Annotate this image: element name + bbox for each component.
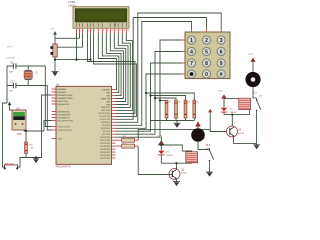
sounder LS1 bbox=[245, 72, 260, 87]
svg-text:PIC16F877A: PIC16F877A bbox=[56, 166, 71, 169]
wire LCD D3 to MCU bbox=[110, 34, 123, 99]
LDR U2 dark bar bbox=[13, 116, 25, 120]
svg-text:13: 13 bbox=[123, 30, 125, 32]
keypad button 7 bbox=[187, 59, 195, 67]
svg-text:OSC1/CLKIN: OSC1/CLKIN bbox=[58, 126, 71, 128]
svg-text:RE0/AN5/RD: RE0/AN5/RD bbox=[58, 110, 71, 113]
wire keypad row A to MCU bbox=[116, 40, 183, 137]
svg-text:RD5/PSP5: RD5/PSP5 bbox=[100, 152, 111, 154]
svg-text:RC4/SDI: RC4/SDI bbox=[102, 125, 111, 127]
svg-text:R2: R2 bbox=[169, 102, 171, 104]
svg-text:RE1/AN6/WR: RE1/AN6/WR bbox=[58, 113, 71, 116]
svg-text:RD0/PSP0: RD0/PSP0 bbox=[100, 137, 111, 139]
keypad button 2 bbox=[202, 36, 210, 44]
wire keypad row D to MCU bbox=[116, 74, 183, 128]
wire pulldown rail D bbox=[146, 93, 194, 100]
power +12V terminal above motor bbox=[195, 121, 201, 126]
svg-text:RB7/PGD: RB7/PGD bbox=[101, 110, 111, 112]
LCD pin name strip bbox=[76, 23, 127, 26]
svg-text:1: 1 bbox=[190, 38, 193, 44]
resistor R2 bbox=[165, 100, 168, 118]
LCD pin numbers bbox=[77, 30, 129, 32]
svg-text:1N4007: 1N4007 bbox=[230, 112, 237, 114]
wire OSC1 to MCU bbox=[45, 66, 51, 127]
svg-text:RA0/AN0: RA0/AN0 bbox=[58, 88, 68, 91]
wire Q2 base bbox=[210, 112, 226, 131]
power terminal at Q2 base bbox=[208, 109, 212, 113]
svg-text:6: 6 bbox=[220, 49, 223, 55]
svg-text:3: 3 bbox=[83, 30, 84, 32]
svg-text:8: 8 bbox=[103, 30, 104, 32]
diode D1 bbox=[221, 99, 227, 115]
svg-text:RB0/INT: RB0/INT bbox=[102, 89, 111, 91]
power +12V terminal at D2 bbox=[159, 137, 164, 145]
wire LCD E to MCU bbox=[94, 34, 137, 117]
wire LCD D6 to MCU bbox=[116, 34, 131, 108]
svg-text:6: 6 bbox=[94, 30, 95, 32]
keypad button 4 bbox=[187, 47, 195, 55]
svg-text:RA2/AN2/VREF-: RA2/AN2/VREF- bbox=[58, 94, 74, 97]
resistor R4 bbox=[184, 100, 187, 118]
svg-text:+12V: +12V bbox=[218, 90, 224, 92]
ground below RV1 bbox=[52, 72, 59, 76]
keypad row stubs bbox=[182, 40, 185, 74]
resistor R1 bbox=[25, 142, 28, 154]
wire crystal pins bbox=[27, 66, 29, 86]
motor M1 bbox=[191, 128, 205, 142]
svg-text:RA5/AN4/SS: RA5/AN4/SS bbox=[58, 103, 71, 106]
keypad button 0 bbox=[202, 70, 210, 78]
svg-text:U1: U1 bbox=[56, 82, 60, 86]
node Q2 collector rail bbox=[231, 114, 233, 116]
svg-text:RC0/T1OSO: RC0/T1OSO bbox=[99, 113, 111, 115]
svg-text:8: 8 bbox=[205, 61, 208, 67]
relay RL2 coil bbox=[186, 152, 198, 163]
wire MCU RA2 long rail bbox=[36, 95, 52, 158]
svg-text:7: 7 bbox=[190, 61, 193, 67]
node rail C bbox=[149, 94, 151, 96]
svg-text:RB3/PGM: RB3/PGM bbox=[101, 98, 111, 100]
LCD screen bbox=[75, 9, 127, 22]
svg-text:R3: R3 bbox=[178, 102, 180, 104]
power +5V terminal above RV1 bbox=[50, 29, 57, 44]
wire R6 to rail loop bbox=[138, 129, 210, 140]
relay RL2 switch bbox=[210, 148, 214, 163]
node D2 top bbox=[160, 144, 162, 146]
ground Q1 emitter bbox=[173, 182, 180, 186]
svg-text:+12V: +12V bbox=[157, 135, 163, 137]
svg-text:1: 1 bbox=[77, 30, 78, 32]
MCU left pin stubs bbox=[52, 89, 57, 139]
ground at R1 bbox=[33, 158, 39, 163]
svg-text:10k: 10k bbox=[30, 147, 33, 149]
wire crystal top rail bbox=[7, 65, 45, 67]
LCD LCD1 labels bbox=[68, 0, 77, 7]
relay RL1 switch bbox=[257, 98, 261, 112]
keypad button star bbox=[187, 70, 195, 78]
wire RV1 wiper to LCD VEE bbox=[57, 34, 82, 48]
svg-text:+12V: +12V bbox=[248, 54, 254, 56]
wire keypad col 2 to MCU bbox=[116, 18, 207, 120]
svg-text:4: 4 bbox=[88, 30, 89, 32]
resistor R6 bbox=[116, 138, 139, 142]
wire keypad row C to MCU bbox=[116, 63, 183, 131]
wire button right to R1 rail bbox=[17, 158, 26, 168]
potentiometer RV1 buttons bbox=[50, 46, 53, 49]
svg-text:1N4007: 1N4007 bbox=[166, 155, 173, 157]
wire Q2 collector bbox=[231, 115, 233, 126]
svg-text:RD6/PSP6: RD6/PSP6 bbox=[100, 155, 111, 157]
svg-text:2: 2 bbox=[80, 30, 81, 32]
LCD screen sheen bbox=[78, 11, 124, 19]
svg-text:RC7/RX: RC7/RX bbox=[103, 134, 111, 136]
ground RL1 Q2 bbox=[253, 143, 260, 148]
node Q1 collector rail bbox=[175, 162, 177, 164]
capacitor C1 bbox=[13, 63, 16, 68]
node RV1 bottom bbox=[54, 59, 56, 61]
wire RL2 top rail bbox=[161, 145, 191, 152]
wire speaker top bbox=[252, 62, 254, 72]
wire LDR node to MCU bbox=[24, 121, 52, 132]
svg-text:#: # bbox=[220, 72, 223, 78]
svg-text:11: 11 bbox=[115, 30, 117, 32]
svg-text:RC3/SCK: RC3/SCK bbox=[101, 122, 111, 124]
svg-text:BC547: BC547 bbox=[181, 173, 188, 175]
svg-text:14: 14 bbox=[127, 30, 129, 32]
keypad button 9 bbox=[217, 59, 225, 67]
resistor R7 bbox=[116, 144, 139, 148]
keypad body bbox=[185, 32, 230, 79]
power +12V terminal above speaker bbox=[250, 57, 255, 62]
wire keypad row B to MCU bbox=[116, 52, 183, 135]
button reset bbox=[4, 165, 18, 169]
transistor Q1 bbox=[169, 169, 180, 180]
svg-text:+5V: +5V bbox=[50, 29, 54, 31]
svg-text:RA3/AN3/VREF+: RA3/AN3/VREF+ bbox=[58, 97, 75, 100]
svg-text:9: 9 bbox=[220, 61, 223, 67]
LDR U2 terminals bbox=[15, 123, 17, 125]
LDR U2 body bbox=[12, 110, 26, 130]
crystal X1 bbox=[24, 70, 32, 79]
wire pulldown rail B bbox=[155, 98, 176, 100]
wire RV1 top to LCD VDD bbox=[55, 34, 80, 39]
svg-text:RD7/PSP7: RD7/PSP7 bbox=[100, 158, 111, 160]
wire LDR node to R1 bbox=[25, 131, 27, 142]
svg-text:RL1: RL1 bbox=[253, 93, 258, 95]
keypad button 5 bbox=[202, 47, 210, 55]
node RW rail bbox=[89, 59, 91, 61]
wire keypad col 3 to MCU bbox=[116, 13, 222, 122]
transistor Q2 bbox=[227, 126, 238, 137]
wire speaker bottom bbox=[253, 87, 257, 98]
node ground rail bbox=[35, 156, 37, 158]
svg-text:R5: R5 bbox=[196, 102, 198, 104]
motor M1 wires bbox=[198, 127, 210, 150]
wire pulldown rail A bbox=[160, 99, 167, 101]
wire caps left rail bbox=[6, 66, 8, 86]
wire pulldown bottom rail bbox=[151, 118, 195, 121]
svg-text:12: 12 bbox=[119, 30, 121, 32]
svg-text:7: 7 bbox=[99, 30, 100, 32]
power +12V terminal at D1 bbox=[221, 94, 227, 98]
resistor R3 bbox=[175, 100, 178, 118]
svg-text:RB6/PGC: RB6/PGC bbox=[101, 107, 111, 109]
svg-text:BC547: BC547 bbox=[238, 133, 245, 135]
wire Q2 emitter to ground bbox=[234, 112, 257, 143]
wire pulldown rail C bbox=[151, 96, 186, 101]
ground pulldown rail bbox=[174, 121, 181, 128]
svg-text:LDR: LDR bbox=[17, 133, 22, 136]
wire LCD D1 to MCU bbox=[102, 34, 119, 93]
svg-text:5: 5 bbox=[91, 30, 92, 32]
keypad button 8 bbox=[202, 59, 210, 67]
svg-text:3: 3 bbox=[220, 38, 223, 44]
wire LCD RS to MCU bbox=[88, 34, 135, 114]
wire Q1 emitter bbox=[176, 179, 178, 182]
svg-text:RL2: RL2 bbox=[206, 145, 211, 147]
svg-text:RC2/CCP1: RC2/CCP1 bbox=[100, 119, 111, 121]
svg-text:RD2/PSP2: RD2/PSP2 bbox=[100, 143, 111, 145]
diode D2 bbox=[158, 145, 164, 163]
wire button left rail bbox=[3, 86, 8, 168]
node LDR divider bbox=[25, 130, 27, 132]
svg-text:2: 2 bbox=[205, 38, 208, 44]
svg-text:9: 9 bbox=[107, 30, 108, 32]
svg-text:VDD: VDD bbox=[58, 138, 63, 140]
svg-text:RA4/T0CKI: RA4/T0CKI bbox=[58, 100, 69, 103]
node VSS rail bbox=[75, 59, 77, 61]
svg-text:5: 5 bbox=[205, 49, 208, 55]
svg-text:RC1/T1OSI: RC1/T1OSI bbox=[100, 116, 111, 118]
svg-text:4: 4 bbox=[190, 49, 193, 55]
wire keypad col 1 to MCU bbox=[116, 22, 192, 126]
svg-text:ERB 1: ERB 1 bbox=[7, 46, 14, 48]
wire R1 to ground bbox=[26, 154, 36, 158]
relay RL1 coil bbox=[239, 98, 251, 109]
svg-text:RC5/SDO: RC5/SDO bbox=[101, 128, 111, 130]
svg-text:RA1/AN1: RA1/AN1 bbox=[58, 91, 68, 94]
wire ground rail VSS RW bbox=[55, 34, 91, 72]
svg-text:RC6/TX: RC6/TX bbox=[103, 131, 111, 133]
svg-text:RE2/AN7/CS: RE2/AN7/CS bbox=[58, 116, 71, 119]
svg-text:RD4/PSP4: RD4/PSP4 bbox=[100, 149, 111, 151]
keypad button 6 bbox=[217, 47, 225, 55]
LCD pin stubs 1-14 bbox=[77, 28, 127, 33]
svg-text:RD1/PSP1: RD1/PSP1 bbox=[100, 140, 111, 142]
LDR U2 light bar bbox=[13, 112, 25, 116]
svg-text:RD3/PSP3: RD3/PSP3 bbox=[100, 146, 111, 148]
node rail D bbox=[145, 92, 147, 94]
svg-text:CRYSTAL: CRYSTAL bbox=[6, 57, 16, 60]
wire RL1 coil bottom bbox=[224, 110, 250, 115]
LCD LCD1 module frame bbox=[73, 7, 129, 29]
MCU right pin stubs bbox=[112, 90, 116, 158]
svg-text:OSC2/CLKOUT: OSC2/CLKOUT bbox=[58, 130, 73, 132]
keypad button hash bbox=[217, 70, 225, 78]
wire LCD D0 to MCU bbox=[98, 34, 116, 90]
wire Q1 collector bbox=[176, 163, 178, 169]
wire LCD D5 to MCU bbox=[116, 34, 129, 105]
MCU left pin names bbox=[58, 88, 75, 141]
MCU right pin names bbox=[99, 89, 112, 159]
node rail B bbox=[154, 97, 156, 99]
keypad column stubs bbox=[192, 29, 222, 32]
ground RL2 switch bbox=[206, 172, 213, 176]
wire LCD D2 to MCU bbox=[106, 34, 121, 96]
node rail A bbox=[159, 99, 161, 101]
keypad button 3 bbox=[217, 36, 225, 44]
wire OSC2 to MCU bbox=[47, 86, 51, 131]
resistor bank labels bbox=[169, 102, 199, 104]
capacitor C2 bbox=[13, 83, 16, 88]
wire RL2 switch to ground bbox=[209, 163, 211, 172]
wire LCD D4 to MCU bbox=[114, 34, 125, 102]
potentiometer RV1 body bbox=[53, 44, 57, 57]
svg-text:0: 0 bbox=[205, 72, 208, 78]
wire LCD D7 to MCU bbox=[116, 34, 133, 111]
power +5V terminal above LDR bbox=[5, 99, 12, 110]
resistor R5 bbox=[193, 100, 196, 118]
svg-text:MCLR/VPP/THV: MCLR/VPP/THV bbox=[58, 120, 74, 122]
wire RL2 coil bottom bbox=[161, 162, 191, 164]
keypad button 1 bbox=[187, 36, 195, 44]
wire RL1 top rail bbox=[224, 98, 239, 100]
MCU U1 body bbox=[56, 86, 112, 164]
wire R7 to Q1 base bbox=[138, 146, 169, 174]
svg-text:R4: R4 bbox=[188, 102, 190, 104]
wire crystal bottom rail bbox=[7, 85, 47, 87]
svg-text:10: 10 bbox=[111, 30, 113, 32]
